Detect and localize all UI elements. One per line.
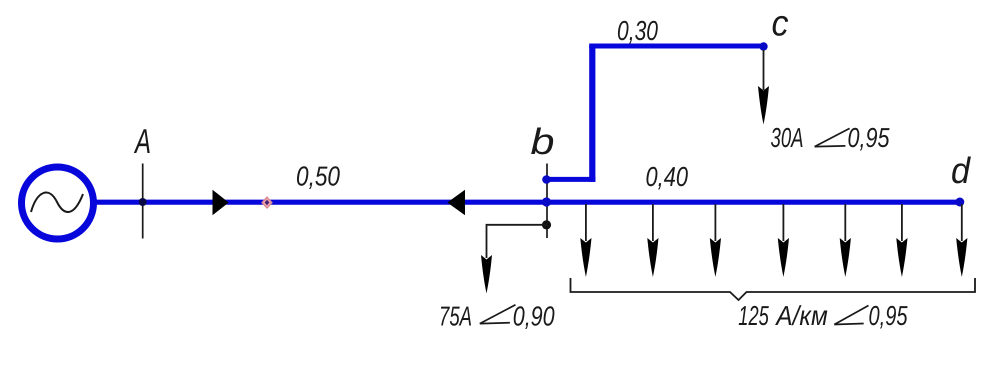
grip marker (pink diamond) on wire — [262, 197, 272, 208]
svg-text:125: 125 — [738, 300, 769, 331]
generator sine-wave symbol — [31, 193, 83, 212]
svg-text:b: b — [531, 121, 555, 162]
node c dot — [759, 42, 767, 50]
distributed load arrow 1 — [580, 204, 591, 277]
svg-text:0,95: 0,95 — [869, 300, 909, 331]
load arrow at node c — [758, 50, 769, 125]
node A junction dot — [139, 198, 147, 206]
load arrow 75A — [481, 255, 492, 294]
wire: main feeder line from generator to node d — [92, 200, 961, 205]
svg-text:0,50: 0,50 — [296, 161, 341, 192]
svg-text:0,90: 0,90 — [513, 301, 556, 332]
wire: branch b to c (stub, riser, top run) — [545, 46, 764, 182]
brace under distributed load — [571, 278, 976, 300]
distributed load arrow 2 — [647, 204, 658, 277]
svg-text:0,40: 0,40 — [646, 161, 689, 192]
svg-text:75А: 75А — [439, 301, 472, 332]
svg-text:0,30: 0,30 — [617, 15, 659, 46]
svg-text:A: A — [134, 123, 151, 161]
tap wire from node b to 75A load — [487, 225, 548, 258]
node b branch junction dot — [542, 175, 551, 184]
svg-text:d: d — [951, 150, 972, 191]
distributed load arrow 4 — [778, 204, 789, 277]
distributed load arrow 7 — [956, 204, 967, 277]
power-flow arrow (rightward) on segment A-b — [213, 190, 229, 215]
angle symbol (cos phi) for 30A load — [815, 128, 850, 146]
svg-text:А/км: А/км — [775, 300, 828, 331]
node A tick (vertical bus mark) — [142, 164, 144, 239]
distributed load arrow 3 — [710, 204, 721, 277]
distributed load arrow 5 — [840, 204, 851, 277]
angle symbol (cos phi) for 75A load — [480, 305, 516, 324]
angle symbol (cos phi) for distributed load — [834, 306, 868, 325]
node b main junction dot — [542, 197, 551, 206]
distributed load arrow 6 — [896, 204, 907, 277]
svg-text:30А: 30А — [771, 122, 804, 153]
node d dot — [955, 198, 964, 207]
node b load-tap dot (black) — [542, 220, 551, 229]
svg-text:c: c — [772, 3, 789, 44]
generator G (AC source) circle — [22, 167, 94, 239]
svg-text:0,95: 0,95 — [848, 122, 891, 153]
node b tick (vertical bus mark) — [546, 164, 548, 239]
power-flow arrow (leftward) near node b — [447, 190, 465, 215]
